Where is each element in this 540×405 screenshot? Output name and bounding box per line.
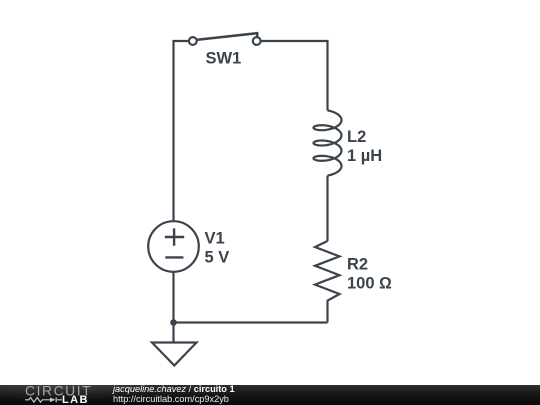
svg-text:5 V: 5 V	[205, 249, 230, 267]
svg-text:V1: V1	[205, 229, 225, 247]
svg-text:1 µH: 1 µH	[347, 147, 382, 165]
svg-text:R2: R2	[347, 255, 368, 273]
svg-text:LAB: LAB	[62, 394, 89, 405]
svg-text:L2: L2	[347, 128, 366, 146]
svg-text:100 Ω: 100 Ω	[347, 274, 392, 292]
svg-text:SW1: SW1	[206, 49, 242, 67]
